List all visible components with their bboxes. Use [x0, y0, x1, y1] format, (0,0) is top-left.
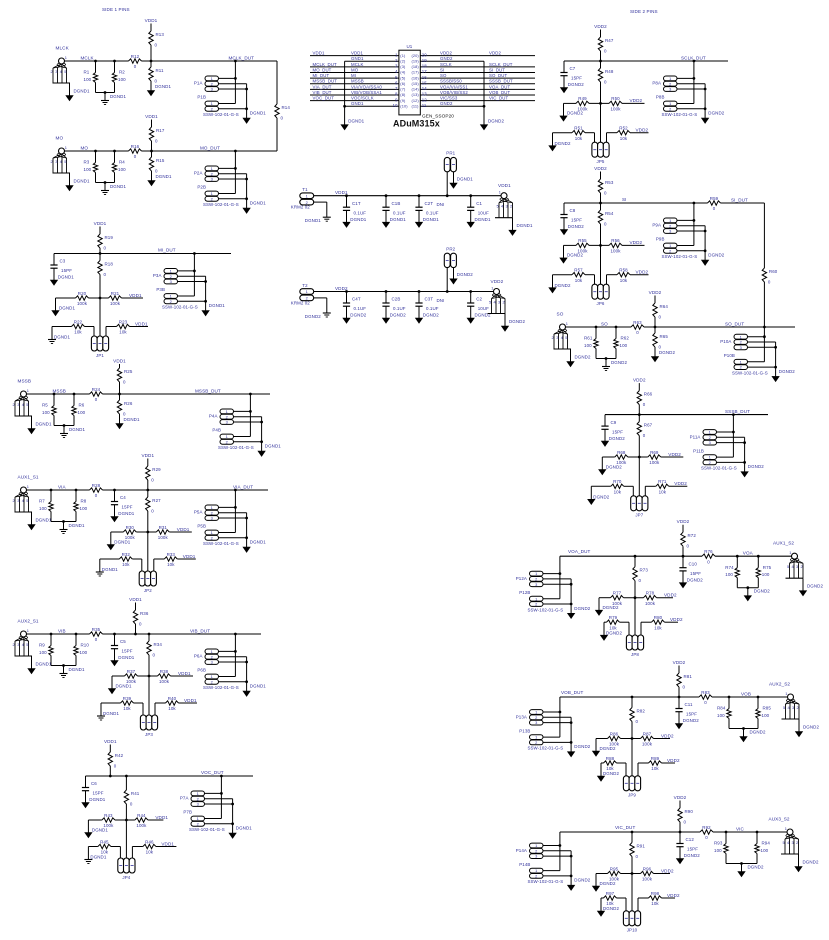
- svg-text:DGND2: DGND2: [575, 355, 591, 360]
- wire: [150, 61, 152, 67]
- ground: [382, 318, 389, 323]
- junction: [570, 603, 573, 606]
- svg-text:DGND1: DGND1: [118, 511, 134, 516]
- svg-text:DGND2: DGND2: [803, 725, 819, 730]
- svg-text:T1: T1: [302, 187, 308, 192]
- svg-text:R37: R37: [127, 669, 136, 674]
- resistor R49: [576, 96, 589, 111]
- svg-text:DGND2: DGND2: [683, 718, 699, 723]
- svg-text:R55: R55: [578, 238, 587, 243]
- svg-text:0.1UF: 0.1UF: [354, 210, 367, 215]
- wire: [763, 282, 765, 327]
- vdd stem wire: [654, 296, 656, 304]
- 10k row right wire: [638, 763, 675, 776]
- svg-text:MCLK_DUT: MCLK_DUT: [313, 62, 337, 67]
- junction: [104, 91, 107, 94]
- wire: [99, 254, 101, 261]
- wire: [109, 766, 111, 776]
- rail wire: [86, 775, 254, 777]
- resistor R93: [714, 841, 728, 854]
- svg-text:T2: T2: [302, 283, 308, 288]
- ground: [116, 417, 140, 429]
- ground: [597, 906, 619, 916]
- svg-text:R90: R90: [685, 809, 694, 814]
- U1 pin 2 wire/net: [345, 56, 406, 63]
- resistor R5 lead: [53, 394, 55, 406]
- svg-text:R11: R11: [156, 68, 165, 73]
- U1 pin 18 wire/net: [412, 62, 536, 69]
- pair bottom wire: [596, 349, 616, 367]
- svg-text:SSW-102-01-G-S: SSW-102-01-G-S: [203, 112, 239, 117]
- svg-text:0: 0: [134, 154, 137, 159]
- junction: [599, 102, 602, 105]
- svg-text:0: 0: [134, 64, 137, 69]
- svg-text:R53: R53: [605, 180, 614, 185]
- svg-text:JP7: JP7: [635, 513, 643, 518]
- jumper PR2: [444, 246, 456, 267]
- 10k row left wire: [604, 622, 629, 635]
- rail wire: [27, 489, 90, 491]
- svg-text:R3: R3: [84, 160, 90, 165]
- header P12B: [519, 590, 543, 607]
- svg-text:1: 1: [669, 243, 671, 248]
- 10k row left wire: [601, 763, 626, 776]
- svg-text:10k: 10k: [659, 490, 667, 495]
- svg-text:VIC_DUT: VIC_DUT: [489, 96, 509, 101]
- jumper JP7: [631, 496, 648, 518]
- junction: [757, 555, 760, 558]
- P12A pin wires: [543, 556, 571, 613]
- svg-text:VDD2: VDD2: [667, 758, 680, 763]
- junction: [469, 290, 472, 293]
- rail wire: [65, 150, 129, 152]
- ground: [450, 272, 473, 284]
- junction: [104, 181, 107, 184]
- svg-text:DGND2: DGND2: [603, 771, 619, 776]
- ground: [744, 589, 770, 601]
- svg-text:20: 20: [422, 52, 428, 57]
- svg-text:1: 1: [27, 388, 29, 393]
- resistor R17: [149, 127, 165, 144]
- svg-text:0: 0: [643, 433, 646, 438]
- svg-text:DGND1: DGND1: [74, 179, 90, 184]
- svg-text:R61: R61: [584, 336, 593, 341]
- wire: [682, 546, 684, 556]
- svg-text:R95: R95: [610, 866, 619, 871]
- 10k row left wire: [591, 486, 633, 499]
- svg-text:1: 1: [197, 816, 199, 821]
- svg-text:C2B: C2B: [392, 297, 401, 302]
- svg-text:SSW-102-01-G-S: SSW-102-01-G-S: [528, 879, 564, 884]
- PR2 wire to rail: [446, 268, 448, 292]
- rail wire: [103, 633, 262, 635]
- svg-text:R78: R78: [646, 591, 655, 596]
- svg-text:VOB: VOB: [741, 691, 751, 696]
- ground: [738, 865, 764, 877]
- pull row wire: [596, 739, 670, 752]
- ground: [111, 517, 118, 522]
- svg-text:(12): (12): [412, 98, 420, 103]
- svg-text:P13B: P13B: [519, 728, 530, 733]
- svg-text:VDD1: VDD1: [313, 51, 325, 56]
- resistor R9 lead: [50, 634, 52, 646]
- svg-text:2: 2: [211, 171, 213, 176]
- svg-text:VIA: VIA: [58, 484, 67, 489]
- svg-text:P3A: P3A: [153, 273, 162, 278]
- svg-text:MO: MO: [351, 67, 359, 72]
- svg-text:P1B: P1B: [197, 95, 206, 100]
- wire: [150, 45, 152, 61]
- ground: [107, 539, 131, 549]
- rail wire: [142, 150, 278, 152]
- svg-text:10UF: 10UF: [478, 306, 489, 311]
- T2 ground lead: [314, 298, 327, 313]
- svg-text:(18): (18): [412, 64, 420, 69]
- junction: [113, 489, 116, 492]
- junction: [260, 421, 263, 424]
- svg-text:P11A: P11A: [690, 434, 701, 439]
- resistor R74 lead: [736, 556, 738, 568]
- wire: [119, 382, 121, 394]
- junction: [595, 326, 598, 329]
- svg-text:DGND1: DGND1: [250, 540, 266, 545]
- ground: [48, 335, 70, 344]
- svg-text:11: 11: [422, 103, 427, 108]
- svg-text:DGND1: DGND1: [348, 118, 364, 123]
- junction: [756, 831, 759, 834]
- resistor R19: [98, 234, 114, 251]
- svg-text:R31: R31: [159, 525, 168, 530]
- svg-text:10k: 10k: [146, 850, 154, 855]
- svg-text:C10: C10: [689, 561, 698, 566]
- svg-text:0: 0: [713, 206, 716, 211]
- 10k row left wire: [88, 847, 120, 860]
- wire: [150, 81, 152, 91]
- svg-text:R16: R16: [131, 144, 140, 149]
- svg-text:2: 2: [197, 796, 199, 801]
- wire: [631, 832, 633, 843]
- junction: [63, 424, 66, 427]
- rail wire: [644, 326, 795, 328]
- resistor R94 lead: [756, 832, 758, 844]
- resistor R1 lead: [95, 61, 97, 73]
- resistor R16: [129, 144, 142, 159]
- svg-text:R27: R27: [152, 498, 161, 503]
- svg-text:SI: SI: [440, 67, 444, 72]
- svg-text:C9: C9: [611, 420, 617, 425]
- svg-text:1: 1: [499, 190, 501, 195]
- svg-text:0: 0: [95, 637, 98, 642]
- capacitor C3T: [415, 292, 444, 319]
- wire: [600, 82, 602, 142]
- svg-text:MSSB_DUT: MSSB_DUT: [313, 79, 338, 84]
- svg-text:DGND1: DGND1: [36, 662, 52, 667]
- svg-text:DGND2: DGND2: [807, 584, 823, 589]
- svg-text:JP10: JP10: [627, 928, 638, 933]
- svg-text:3: 3: [211, 177, 213, 182]
- svg-text:DGND2: DGND2: [509, 319, 525, 324]
- U1 pin 1 wire/net: [310, 51, 406, 58]
- ground: [66, 89, 90, 101]
- ground: [560, 230, 567, 235]
- svg-text:2: 2: [211, 535, 213, 540]
- svg-text:R32: R32: [122, 552, 131, 557]
- capacitor C4T: [343, 292, 367, 319]
- junction: [728, 696, 731, 699]
- junction: [249, 410, 252, 413]
- junction: [245, 536, 248, 539]
- resistor R71: [656, 479, 669, 494]
- svg-text:DGND2: DGND2: [350, 313, 366, 318]
- svg-text:0: 0: [636, 330, 639, 335]
- svg-text:1: 1: [535, 843, 537, 848]
- rail wire: [566, 326, 631, 328]
- svg-text:DGND1: DGND1: [305, 218, 321, 223]
- connector MLCK: [51, 55, 71, 96]
- svg-text:(8): (8): [400, 92, 406, 97]
- rail wire: [715, 555, 791, 557]
- connector SO: [552, 321, 572, 362]
- svg-text:0.1UF: 0.1UF: [354, 306, 367, 311]
- svg-text:R65: R65: [660, 334, 669, 339]
- wire: [678, 687, 680, 697]
- svg-text:R88: R88: [606, 756, 615, 761]
- junction: [231, 822, 234, 825]
- resistor R37: [125, 669, 138, 684]
- rail wire: [560, 831, 700, 833]
- svg-text:DGND2: DGND2: [754, 589, 770, 594]
- junction: [385, 194, 388, 197]
- svg-text:100k: 100k: [645, 601, 656, 606]
- junction: [234, 506, 237, 509]
- rail wire: [564, 60, 728, 62]
- rail wire: [103, 489, 269, 491]
- svg-text:0: 0: [604, 191, 607, 196]
- svg-text:0.1UF: 0.1UF: [393, 210, 406, 215]
- U1 pin 17 wire/net: [412, 67, 536, 74]
- svg-text:R7: R7: [39, 499, 45, 504]
- resistor R53: [598, 179, 614, 196]
- svg-text:SCLK: SCLK: [440, 62, 452, 67]
- svg-text:DGND1: DGND1: [59, 305, 75, 310]
- resistor R54: [598, 210, 614, 227]
- resistor R70: [611, 479, 624, 494]
- capacitor C2B: [382, 292, 406, 319]
- svg-text:R36: R36: [140, 611, 149, 616]
- resistor R86: [608, 731, 621, 746]
- svg-text:R51: R51: [574, 126, 583, 131]
- svg-text:15PF: 15PF: [571, 76, 582, 81]
- svg-text:MSSB_DUT: MSSB_DUT: [195, 388, 221, 393]
- resistor R14: [275, 104, 291, 121]
- junction: [483, 105, 486, 108]
- svg-text:U1: U1: [407, 44, 413, 49]
- P9A pin wires: [677, 203, 705, 260]
- svg-text:DGND2: DGND2: [305, 314, 321, 319]
- svg-text:100: 100: [714, 848, 722, 853]
- junction: [231, 803, 234, 806]
- resistor R8: [74, 499, 88, 512]
- junction: [234, 150, 237, 153]
- svg-text:0: 0: [139, 622, 142, 627]
- resistor R40: [166, 696, 179, 711]
- ground: [415, 318, 422, 323]
- svg-text:100: 100: [80, 650, 88, 655]
- svg-text:MLCK: MLCK: [56, 46, 70, 51]
- svg-text:MSSB: MSSB: [18, 379, 32, 384]
- svg-text:R91: R91: [637, 844, 646, 849]
- junction: [599, 60, 602, 63]
- svg-text:R2: R2: [119, 70, 125, 75]
- svg-text:3: 3: [535, 854, 537, 859]
- svg-text:DGND1: DGND1: [89, 797, 105, 802]
- resistor R55: [576, 238, 589, 253]
- svg-text:2: 2: [740, 340, 742, 345]
- svg-text:VIA_DUT: VIA_DUT: [313, 84, 332, 89]
- svg-text:VOB/VIB/SS2: VOB/VIB/SS2: [440, 90, 468, 95]
- svg-text:SSW-102-01-G-S: SSW-102-01-G-S: [189, 827, 225, 832]
- capacitor C6: [82, 776, 106, 803]
- svg-text:DGND2: DGND2: [390, 313, 406, 318]
- wire: [631, 697, 633, 708]
- svg-text:2: 2: [211, 81, 213, 86]
- rail VDD2 wire: [314, 291, 494, 293]
- resistor R29: [146, 466, 162, 483]
- resistor R10 lead: [75, 634, 77, 646]
- svg-text:100: 100: [84, 77, 92, 82]
- svg-text:JP6: JP6: [597, 301, 605, 306]
- svg-text:1: 1: [211, 76, 213, 81]
- svg-text:DGND2: DGND2: [488, 118, 504, 123]
- svg-text:2: 2: [740, 365, 742, 370]
- svg-text:SO: SO: [557, 312, 564, 317]
- ground: [147, 84, 171, 96]
- svg-text:SSW-102-01-G-S: SSW-102-01-G-S: [218, 445, 254, 450]
- wire: [147, 511, 149, 571]
- U1 pin 3 wire/net: [310, 62, 406, 69]
- svg-text:1: 1: [211, 649, 213, 654]
- junction: [570, 741, 573, 744]
- wire: [600, 61, 602, 68]
- svg-text:100k: 100k: [610, 107, 621, 112]
- U1 pin 20 wire/net: [412, 51, 536, 58]
- jumper JP2: [139, 571, 156, 593]
- junction: [631, 872, 634, 875]
- svg-text:SSW-102-01-G-S: SSW-102-01-G-S: [203, 541, 239, 546]
- resistor R30: [123, 525, 136, 540]
- svg-text:VIB_DUT: VIB_DUT: [313, 90, 332, 95]
- svg-text:VDD1: VDD1: [178, 671, 191, 676]
- wire: [631, 722, 633, 776]
- rail wire: [605, 414, 768, 416]
- capacitor C1B: [382, 196, 406, 223]
- header P13A: [516, 710, 543, 726]
- svg-text:1: 1: [535, 596, 537, 601]
- svg-text:DGND2: DGND2: [567, 253, 583, 258]
- svg-text:P14A: P14A: [516, 848, 527, 853]
- svg-text:(14): (14): [412, 87, 420, 92]
- header P9A: [652, 218, 677, 234]
- capacitor C5: [111, 634, 135, 661]
- svg-text:0: 0: [643, 402, 646, 407]
- svg-text:VOA_DUT: VOA_DUT: [489, 84, 510, 89]
- svg-text:100: 100: [584, 343, 592, 348]
- svg-text:SI: SI: [622, 197, 627, 202]
- vdd stem wire: [679, 801, 681, 809]
- header T2: [291, 283, 314, 306]
- ground: [702, 253, 725, 266]
- svg-text:R89: R89: [651, 756, 660, 761]
- svg-text:R83: R83: [701, 690, 710, 695]
- ground: [101, 184, 126, 195]
- header P4A: [209, 409, 234, 425]
- capacitor C9: [601, 415, 625, 442]
- junction: [743, 461, 746, 464]
- svg-text:VOB_DUT: VOB_DUT: [489, 90, 510, 95]
- svg-text:100k: 100k: [610, 249, 621, 254]
- svg-text:R50: R50: [611, 96, 620, 101]
- svg-text:1: 1: [211, 505, 213, 510]
- svg-text:17: 17: [422, 69, 428, 74]
- svg-text:0: 0: [636, 719, 639, 724]
- resistor R79: [607, 615, 620, 630]
- svg-text:12: 12: [422, 97, 428, 102]
- svg-text:VDD1: VDD1: [135, 321, 148, 326]
- junction: [693, 60, 696, 63]
- svg-text:SIDE 2 PINS: SIDE 2 PINS: [630, 9, 658, 14]
- pull row wire: [599, 598, 673, 611]
- wire: [125, 776, 127, 790]
- svg-text:DGND2: DGND2: [574, 878, 590, 883]
- junction: [345, 194, 348, 197]
- svg-text:DGND1: DGND1: [36, 422, 52, 427]
- junction: [732, 431, 735, 434]
- resistor R81: [677, 673, 693, 690]
- resistor R2 lead: [114, 61, 116, 73]
- svg-text:1: 1: [669, 218, 671, 223]
- junction: [446, 194, 449, 197]
- svg-text:2: 2: [669, 248, 671, 253]
- resistor R80: [652, 615, 665, 630]
- svg-text:0: 0: [705, 835, 708, 840]
- svg-text:R58: R58: [619, 268, 628, 273]
- PR1 ground lead: [453, 172, 455, 183]
- svg-text:VDD1: VDD1: [94, 221, 107, 226]
- rail wire: [27, 393, 90, 395]
- wire: [721, 202, 765, 204]
- svg-text:DGND2: DGND2: [574, 606, 590, 611]
- svg-text:1: 1: [27, 628, 29, 633]
- svg-text:10k: 10k: [614, 490, 622, 495]
- svg-text:VDD1: VDD1: [351, 51, 363, 56]
- junction: [678, 696, 681, 699]
- svg-text:3: 3: [226, 420, 228, 425]
- svg-text:0.1UF: 0.1UF: [393, 306, 406, 311]
- ground: [480, 118, 504, 130]
- junction: [693, 77, 696, 80]
- svg-text:P5B: P5B: [197, 524, 206, 529]
- resistor R25: [117, 368, 133, 385]
- svg-text:DGND2: DGND2: [555, 141, 571, 146]
- svg-text:VDD2: VDD2: [594, 166, 607, 171]
- svg-text:10k: 10k: [651, 901, 659, 906]
- ground: [795, 725, 819, 737]
- ground: [66, 179, 90, 191]
- svg-text:VDD2: VDD2: [674, 481, 687, 486]
- svg-text:19: 19: [422, 58, 428, 63]
- junction: [94, 60, 97, 63]
- resistor R72: [681, 532, 697, 549]
